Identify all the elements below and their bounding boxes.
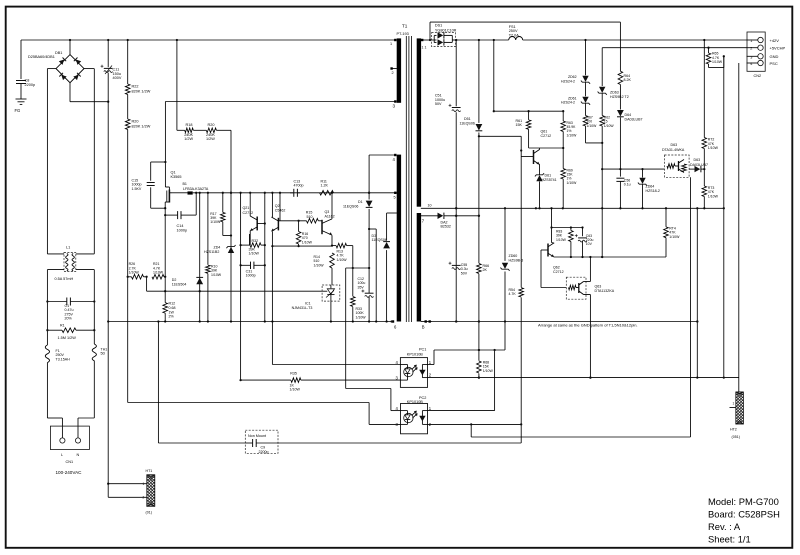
diode DA2	[421, 215, 438, 217]
svg-text:1/10W: 1/10W	[556, 238, 567, 242]
svg-text:1: 1	[390, 42, 392, 46]
svg-text:4: 4	[750, 62, 752, 66]
diode D64	[617, 110, 624, 116]
svg-text:2%: 2%	[169, 315, 175, 319]
capacitor C63	[582, 228, 584, 237]
diode D1	[368, 155, 370, 268]
svg-text:D64: D64	[625, 113, 632, 117]
svg-text:R22: R22	[132, 85, 139, 89]
svg-text:0.68: 0.68	[169, 306, 176, 310]
ferrite bead B1	[188, 191, 193, 194]
wire startup drop	[176, 40, 178, 130]
svg-text:1/10W: 1/10W	[604, 124, 615, 128]
svg-text:820K 1/2W: 820K 1/2W	[132, 124, 151, 128]
svg-text:N: N	[77, 453, 80, 457]
wire reg row	[602, 168, 664, 170]
transistor Q2	[277, 218, 279, 231]
svg-text:R20: R20	[132, 120, 139, 124]
svg-text:T2.0A: T2.0A	[509, 33, 520, 37]
capacitor C9 (non mount)	[245, 430, 278, 453]
svg-text:PC1: PC1	[419, 348, 426, 352]
svg-text:1/10W: 1/10W	[708, 194, 719, 198]
svg-text:DA03LUB7: DA03LUB7	[625, 118, 643, 122]
wire secondary GND bus	[421, 207, 724, 209]
ground FG	[16, 98, 27, 100]
svg-text:HZS24-2: HZS24-2	[561, 79, 575, 83]
svg-text:1 1: 1 1	[422, 46, 427, 50]
svg-text:D63: D63	[694, 158, 701, 162]
svg-text:HZS18-2: HZS18-2	[646, 189, 660, 193]
svg-text:2K: 2K	[483, 268, 488, 272]
svg-text:50V: 50V	[435, 102, 442, 106]
svg-text:B1: B1	[183, 182, 187, 186]
T1 pin 3	[394, 100, 396, 102]
zener ZD64	[642, 169, 644, 177]
resistor R13	[332, 245, 336, 247]
transistor Q63 (digital tr)	[566, 277, 586, 299]
svg-text:ZD62: ZD62	[568, 75, 577, 79]
svg-text:D51: D51	[464, 117, 471, 121]
svg-text:T3.15AH: T3.15AH	[56, 358, 71, 362]
resistor R61	[528, 111, 530, 120]
svg-text:8.2K: 8.2K	[624, 78, 632, 82]
resistor R22	[125, 84, 130, 95]
svg-text:FG: FG	[15, 108, 21, 113]
svg-text:2200p: 2200p	[25, 83, 36, 87]
diode DS1 (dual rectifier)	[421, 39, 432, 41]
transistor Q61	[521, 156, 533, 158]
svg-text:DB1: DB1	[55, 51, 62, 55]
wire Q63 column	[589, 257, 591, 282]
svg-text:F1: F1	[56, 349, 60, 353]
svg-text:Board: C528PSH: Board: C528PSH	[708, 508, 780, 519]
transistor Q21	[256, 217, 258, 231]
svg-text:20%: 20%	[65, 317, 73, 321]
zener D61	[536, 175, 542, 181]
svg-text:B2532: B2532	[441, 225, 451, 229]
op-amp IC1 (shunt reg NJM431)	[322, 285, 340, 301]
wire GND to CN2	[723, 56, 725, 377]
svg-text:Q61: Q61	[541, 130, 548, 134]
transformer T1 primary winding bars	[397, 38, 401, 102]
svg-text:1/10W: 1/10W	[210, 220, 221, 224]
wire startup column to ZD4 node	[230, 130, 232, 321]
wire Q63 col down	[690, 177, 692, 437]
resistor R20	[125, 119, 130, 130]
svg-text:Q21: Q21	[243, 206, 250, 210]
svg-text:HZS5741: HZS5741	[542, 178, 557, 182]
wire Q62 base to Q63	[540, 250, 542, 288]
svg-text:ZD4: ZD4	[214, 246, 221, 250]
svg-text:DA03LUB7: DA03LUB7	[690, 163, 708, 167]
svg-text:Arrange at same as the GND pat: Arrange at same as the GND pattern of T1…	[538, 323, 638, 328]
wire T1 pin4 line	[369, 154, 394, 156]
resistor R1	[47, 329, 62, 331]
wire aux feed column	[493, 40, 495, 111]
wire HT1 column	[107, 322, 109, 498]
resistor R64	[619, 22, 621, 71]
resistor R32	[241, 244, 250, 246]
svg-text:IC1: IC1	[305, 302, 311, 306]
wire primary ground bus	[108, 321, 391, 323]
optocoupler PC1	[400, 358, 427, 388]
diode D51	[478, 40, 480, 377]
svg-text:(051): (051)	[732, 435, 740, 439]
svg-text:T1: T1	[402, 24, 408, 29]
svg-text:1/10W: 1/10W	[669, 235, 680, 239]
svg-text:L1: L1	[66, 246, 70, 250]
capacitor C12	[368, 268, 370, 293]
T1 pin 5	[394, 192, 396, 194]
wire L1 out left	[47, 253, 64, 255]
zener ZD60	[504, 208, 506, 350]
svg-text:GND: GND	[770, 54, 779, 59]
svg-text:5D: 5D	[101, 352, 106, 356]
svg-text:L: L	[61, 453, 63, 457]
svg-text:1: 1	[143, 482, 145, 486]
wire R20 column down to PC2 line	[127, 130, 129, 403]
svg-text:1/10W: 1/10W	[356, 315, 367, 319]
svg-text:3: 3	[750, 55, 752, 59]
wire L1 out right	[76, 253, 95, 255]
svg-text:D63: D63	[671, 143, 678, 147]
svg-text:KP1010B: KP1010B	[407, 353, 424, 357]
svg-text:R12: R12	[169, 302, 176, 306]
resistor R28	[206, 128, 216, 133]
transistor Q1 (MOSFET)	[165, 186, 169, 188]
wire collector row Q61	[529, 147, 564, 149]
svg-text:B: B	[422, 324, 425, 329]
svg-text:1.2K: 1.2K	[321, 184, 329, 188]
wire source column	[164, 205, 166, 303]
capacitor C15 snubber	[150, 162, 152, 181]
svg-text:D25BA60/4DB1: D25BA60/4DB1	[28, 55, 55, 59]
wire Q62 emitter row	[554, 256, 666, 258]
inductor L1 (line filter)	[64, 252, 76, 271]
svg-text:1/10W: 1/10W	[337, 258, 348, 262]
svg-text:4.7K: 4.7K	[509, 292, 517, 296]
svg-text:D1: D1	[358, 200, 363, 204]
resistor R26	[128, 276, 132, 278]
resistor R83	[570, 228, 572, 231]
diode D63 output	[689, 168, 694, 170]
svg-text:CN1: CN1	[66, 460, 74, 464]
T1 pin 6	[392, 320, 394, 322]
svg-text:HT1: HT1	[146, 469, 153, 473]
svg-text:50V: 50V	[461, 271, 468, 275]
svg-text:1/10W: 1/10W	[211, 273, 222, 277]
svg-text:10V: 10V	[586, 242, 593, 246]
wire gate line	[172, 192, 188, 194]
svg-text:1/10W: 1/10W	[302, 240, 313, 244]
svg-text:R35: R35	[290, 372, 297, 376]
svg-text:K3565: K3565	[171, 175, 182, 179]
svg-text:15K: 15K	[516, 123, 523, 127]
svg-text:1.5KV: 1.5KV	[132, 187, 142, 191]
T1 pin 11	[421, 39, 423, 41]
wire +42V rail	[456, 39, 509, 41]
svg-text:(01): (01)	[146, 511, 152, 515]
wire collector row	[272, 245, 332, 247]
resistor R16	[298, 221, 300, 232]
svg-text:3: 3	[393, 103, 396, 108]
wire bridge AC left	[47, 68, 56, 70]
svg-text:R1: R1	[60, 323, 65, 327]
svg-text:C2712: C2712	[541, 134, 552, 138]
svg-text:10: 10	[428, 204, 432, 208]
svg-text:1/2W: 1/2W	[206, 137, 215, 141]
svg-text:+5VCHP: +5VCHP	[770, 46, 786, 51]
svg-text:4700p: 4700p	[294, 184, 304, 188]
svg-text:400V: 400V	[113, 76, 122, 80]
capacitor C31	[241, 264, 251, 266]
wire R13 to C12 node	[352, 246, 354, 322]
svg-text:2: 2	[143, 496, 145, 500]
svg-text:R32: R32	[252, 239, 259, 243]
svg-text:Non Mount: Non Mount	[248, 434, 266, 438]
wire snub column	[369, 228, 376, 230]
svg-text:R15: R15	[306, 210, 313, 214]
svg-text:A1162: A1162	[325, 215, 335, 219]
zener ZD61	[582, 97, 588, 103]
capacitor C56	[616, 177, 624, 179]
resistor R66	[476, 263, 481, 274]
svg-text:HZS11B2: HZS11B2	[204, 250, 219, 254]
svg-text:DTA31-4WKA: DTA31-4WKA	[662, 148, 685, 152]
capacitor C13	[290, 192, 294, 194]
wire PC1 pin3 row	[241, 379, 291, 381]
svg-text:1/10W: 1/10W	[153, 271, 164, 275]
wire feedback sense line	[147, 290, 323, 292]
zener ZD4	[228, 247, 234, 253]
svg-text:1/10W: 1/10W	[567, 133, 578, 137]
resistor R15	[307, 219, 319, 224]
wire aux to base row	[479, 135, 521, 137]
resistor R35	[291, 378, 301, 383]
transistor Q3	[321, 220, 323, 234]
connector CN1	[47, 417, 62, 419]
resistor R17	[222, 193, 224, 213]
diode D2	[199, 193, 201, 322]
wire bridge minus out	[69, 83, 71, 102]
svg-text:D61: D61	[545, 174, 552, 178]
svg-text:C5462: C5462	[275, 209, 286, 213]
svg-text:R20: R20	[208, 123, 215, 127]
capacitor C51	[455, 40, 457, 106]
svg-text:100-240VAC: 100-240VAC	[56, 470, 83, 475]
diode D3	[387, 212, 397, 214]
resistor R11	[320, 191, 334, 196]
terminal HT2	[730, 407, 736, 409]
transistor D63 (digital tr)	[665, 155, 690, 177]
svg-text:1/10W: 1/10W	[249, 252, 260, 256]
wire column B	[264, 193, 266, 322]
svg-text:KP1010B: KP1010B	[407, 400, 424, 404]
transformer T1 core	[405, 36, 407, 322]
optocoupler PC2	[401, 404, 428, 434]
svg-text:CN2: CN2	[754, 74, 762, 78]
svg-text:1/10W: 1/10W	[708, 146, 719, 150]
svg-text:1: 1	[733, 401, 735, 405]
svg-text:PSC: PSC	[770, 61, 778, 66]
svg-text:HT2: HT2	[730, 428, 737, 432]
wire PC2 pin4 feed	[345, 268, 347, 389]
svg-text:1/10W: 1/10W	[290, 388, 301, 392]
svg-text:820K 1/2W: 820K 1/2W	[132, 89, 151, 93]
svg-text:1000p: 1000p	[177, 228, 188, 232]
thermistor TH1	[92, 344, 96, 361]
svg-text:ZD60: ZD60	[509, 254, 518, 258]
terminal HT1	[108, 483, 147, 485]
svg-text:1/10W: 1/10W	[567, 181, 578, 185]
svg-text:35V: 35V	[358, 285, 365, 289]
capacitor C1 (X cap)	[47, 301, 66, 303]
wire Q62 collector top	[551, 208, 553, 242]
svg-text:ZD64: ZD64	[646, 185, 655, 189]
svg-text:HZS24-2: HZS24-2	[561, 101, 575, 105]
svg-text:ZD63: ZD63	[610, 91, 619, 95]
svg-text:1/10W: 1/10W	[314, 263, 325, 267]
resistor R12 (sense)	[163, 303, 168, 314]
T1 pin 2	[391, 68, 397, 70]
capacitor C8	[16, 80, 26, 82]
capacitor C14	[195, 193, 197, 215]
svg-text:Q62: Q62	[553, 266, 560, 270]
zener ZD63	[601, 48, 603, 86]
svg-text:R18: R18	[186, 123, 193, 127]
svg-text:2: 2	[750, 47, 752, 51]
wire anode top loop	[429, 22, 431, 40]
transformer T1 secondary winding bars	[417, 38, 421, 206]
wire PC2 pin2 out	[428, 423, 522, 425]
wire left drop to C8	[20, 40, 22, 79]
svg-text:5: 5	[394, 195, 396, 199]
resistor RT3	[703, 169, 705, 186]
svg-text:NJM431L-T3: NJM431L-T3	[292, 306, 313, 310]
zener ZD62	[585, 40, 587, 75]
svg-text:1: 1	[750, 39, 752, 43]
wire C9 line	[157, 322, 159, 444]
resistor R69	[562, 148, 564, 169]
wire PC2 pin1 out	[428, 410, 495, 412]
svg-text:Q2: Q2	[275, 204, 280, 208]
capacitor C11 (bulk)	[107, 40, 109, 67]
svg-text:1/2W: 1/2W	[184, 137, 193, 141]
svg-text:C2712: C2712	[553, 270, 564, 274]
svg-text:1/10W: 1/10W	[712, 60, 723, 64]
svg-text:LFB3A-K3A2TA: LFB3A-K3A2TA	[183, 187, 209, 191]
bridge rectifier DB1	[56, 55, 84, 83]
svg-text:2200p: 2200p	[259, 450, 269, 454]
svg-text:Q63: Q63	[595, 285, 602, 289]
fuse FS1	[509, 37, 523, 41]
resistor R33	[350, 296, 356, 307]
wire +5VCHP rail	[602, 47, 746, 49]
svg-text:HZS9B2 T2: HZS9B2 T2	[610, 95, 629, 99]
svg-text:PT-193: PT-193	[397, 32, 409, 36]
svg-text:11EQS06: 11EQS06	[460, 122, 475, 126]
wire bridge AC right	[84, 68, 94, 70]
T1 pin B	[425, 320, 427, 322]
svg-text:ZD61: ZD61	[568, 96, 577, 100]
resistor RT4	[665, 208, 667, 227]
svg-text:1W: 1W	[169, 310, 175, 314]
wire bus drop to HT2 line	[696, 208, 698, 377]
resistor R14	[330, 253, 335, 268]
connector CN2	[747, 32, 765, 71]
resistor R62	[600, 116, 605, 127]
svg-text:Sheet: 1/1: Sheet: 1/1	[708, 534, 751, 545]
T1 pin 4	[394, 154, 396, 156]
svg-text:1/10W: 1/10W	[129, 271, 140, 275]
svg-text:1/10W: 1/10W	[587, 124, 598, 128]
svg-text:DS1: DS1	[435, 23, 442, 27]
resistor RT2	[703, 40, 705, 138]
svg-text:+42V: +42V	[770, 38, 780, 43]
wire Q2 base line	[278, 220, 306, 222]
resistor R10	[207, 193, 209, 322]
transistor Q62	[547, 244, 549, 257]
fuse F1	[45, 345, 49, 363]
svg-text:11EQS06: 11EQS06	[343, 204, 358, 208]
svg-text:1.5M 1/2W: 1.5M 1/2W	[58, 336, 77, 340]
svg-text:250V: 250V	[56, 353, 65, 357]
wire drain line to T1 pin3	[165, 101, 394, 103]
wire PC1 pin4 row	[272, 364, 400, 366]
svg-text:Model: PM-G700: Model: PM-G700	[708, 496, 779, 507]
wire PSC column	[738, 63, 740, 392]
svg-text:11ES504: 11ES504	[172, 282, 187, 286]
svg-text:YG801C10R: YG801C10R	[435, 28, 457, 32]
resistor R18	[177, 129, 185, 131]
svg-text:2: 2	[392, 71, 394, 75]
resistor R54	[520, 136, 522, 442]
capacitor C55	[452, 264, 461, 266]
svg-text:0.1u: 0.1u	[624, 183, 631, 187]
resistor R21	[146, 277, 148, 291]
svg-text:C2712: C2712	[243, 211, 254, 215]
wire secondary bottom bus	[432, 321, 697, 323]
svg-text:11EQS06: 11EQS06	[372, 238, 387, 242]
svg-text:0.5A 57mH: 0.5A 57mH	[55, 277, 74, 281]
resistor R65	[708, 48, 710, 53]
wire Q21 emitter	[249, 231, 251, 246]
T1 pin 1	[394, 39, 396, 41]
wire column A	[240, 193, 242, 380]
svg-text:510: 510	[307, 215, 313, 219]
resistor R63	[562, 111, 564, 121]
resistor R67	[583, 116, 588, 127]
wire PC1 pin2 out	[428, 377, 739, 379]
svg-text:Q3: Q3	[325, 210, 330, 214]
svg-text:DTA113ZKA: DTA113ZKA	[595, 289, 615, 293]
wire drain drop	[164, 102, 166, 188]
svg-text:Rev. : A: Rev. : A	[708, 521, 741, 532]
wire PC1 pin1 out	[428, 364, 435, 366]
svg-text:1/10W: 1/10W	[483, 369, 494, 373]
svg-text:Q1: Q1	[171, 171, 176, 175]
wire top bus (rectified +)	[21, 39, 395, 41]
svg-text:1000p: 1000p	[246, 274, 256, 278]
resistor R68	[476, 361, 481, 374]
